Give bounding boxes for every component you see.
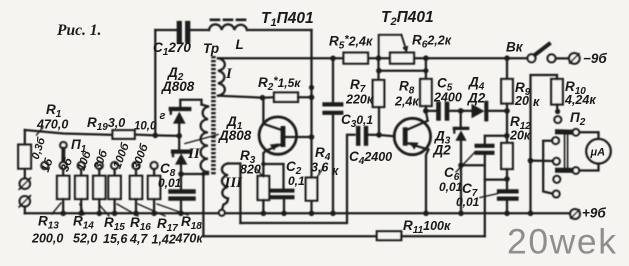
capacitor C6 branch parallel to R12 — [485, 136, 507, 144]
pointer line R13 — [52, 203, 61, 214]
wire R11 line bottom — [203, 235, 376, 237]
capacitor C2 branch — [261, 162, 265, 166]
svg-text:1,42: 1,42 — [152, 233, 176, 247]
svg-text:200,0: 200,0 — [31, 232, 63, 246]
zener D2 chain top corner — [180, 100, 201, 107]
wire C5 to D4 — [449, 110, 471, 112]
pointer line R17 — [138, 204, 165, 216]
resistor R14 with leads — [80, 169, 82, 176]
wire wiper2 to meter — [579, 163, 598, 170]
capacitor C7 — [499, 189, 517, 193]
svg-text:μА: μА — [590, 147, 606, 159]
winding III top lead — [228, 164, 240, 224]
zener diode D2 — [171, 107, 190, 111]
wire C6 line to R12 bottom node — [485, 178, 507, 180]
resistor R13 with leads — [62, 169, 64, 176]
wire contact 2 to contact 5 — [543, 141, 552, 194]
terminal plus 9V — [570, 209, 580, 219]
svg-text:Т1П401: Т1П401 — [261, 10, 314, 29]
svg-text:20к: 20к — [509, 129, 531, 143]
winding III — [222, 164, 228, 199]
winding II top lead — [202, 105, 209, 107]
transformer core — [211, 56, 216, 175]
wire D4 to R9 node — [488, 110, 507, 112]
P2 wiper link — [564, 135, 566, 169]
svg-text:10,0: 10,0 — [134, 121, 157, 133]
resistor R2 — [263, 96, 275, 99]
svg-text:2400: 2400 — [433, 91, 462, 105]
svg-text:470,0: 470,0 — [36, 117, 68, 131]
core of L dashes — [211, 18, 246, 21]
node R2 base junction — [260, 95, 266, 101]
resistor R18 with leads — [153, 169, 155, 176]
wire tank left leg — [154, 30, 156, 135]
resistor R6 trimmer — [390, 53, 414, 64]
svg-text:+9б: +9б — [582, 206, 606, 221]
svg-text:20wek: 20wek — [507, 222, 618, 262]
pointer line R18 — [157, 204, 188, 215]
switch P2 contact 3 — [553, 158, 560, 165]
switch P2 contact 5 — [553, 191, 560, 198]
wire winding I bottom to R2 node — [218, 96, 263, 98]
winding II — [201, 107, 208, 173]
svg-text:820: 820 — [240, 163, 261, 177]
wire T2 collector — [426, 111, 428, 121]
svg-text:220к: 220к — [345, 93, 374, 107]
wire C6 bottom down to R11 line — [484, 154, 486, 236]
wire tank right leg down to T1 collector — [310, 30, 312, 137]
pointer line C7 label — [480, 194, 498, 198]
terminal minus 9V — [569, 53, 580, 64]
node T1 collector tank — [309, 134, 315, 140]
node P2 branch on left line — [528, 158, 534, 164]
wire feedback line to C4 — [240, 135, 354, 223]
resistor R9 branch — [504, 55, 510, 61]
resistor R8 branch fed from bus and R5-R6 node — [376, 68, 382, 74]
wire R10 bottom to contact 1 — [556, 105, 559, 113]
meter microammeter — [586, 139, 610, 163]
winding III bottom lead — [222, 199, 228, 210]
zener diode D1 — [178, 136, 180, 150]
svg-text:Д808: Д808 — [161, 79, 195, 94]
svg-text:0,01: 0,01 — [439, 180, 463, 194]
svg-text:15,6: 15,6 — [103, 232, 128, 246]
wire R1 to input terminal — [24, 169, 26, 179]
wire L to tank right leg — [247, 29, 312, 31]
svg-text:III: III — [224, 175, 244, 191]
wire R19 to D2 chain — [135, 135, 180, 136]
transistor T2 — [394, 118, 430, 154]
resistor R19 — [113, 130, 135, 139]
capacitor C5 — [436, 104, 441, 118]
wire winding II bottom down to R11 line — [202, 174, 204, 236]
wire C1 to L — [189, 29, 209, 31]
svg-text:к: к — [332, 164, 339, 178]
switch Vk — [507, 57, 527, 59]
switch P2 contact 1 — [554, 116, 561, 123]
wire wiper1 to meter — [579, 132, 598, 139]
svg-text:4,24к: 4,24к — [564, 93, 596, 107]
node D1-D2 junction — [176, 133, 182, 139]
resistor R12 — [506, 111, 508, 143]
svg-text:I: I — [225, 66, 233, 82]
svg-text:к: к — [533, 95, 540, 109]
wire T1 emitter down — [263, 151, 265, 176]
svg-text:Рис. 1.: Рис. 1. — [57, 22, 101, 39]
svg-text:4,7: 4,7 — [129, 232, 148, 246]
wire tank top left — [155, 29, 176, 31]
wire T1 base up to R2 node — [262, 98, 264, 124]
P2 wiper 2 — [558, 168, 573, 173]
contact 1V — [60, 162, 67, 169]
capacitor C8 — [171, 189, 194, 193]
svg-text:Д808: Д808 — [218, 128, 252, 143]
capacitor C1 — [177, 24, 182, 41]
node C8 at rail — [178, 211, 184, 217]
contact 100V — [133, 162, 140, 169]
pointer line R1 label — [37, 128, 44, 136]
pointer line R16 — [117, 204, 138, 216]
transistor T1 — [259, 117, 296, 154]
svg-text:Вк: Вк — [506, 40, 524, 55]
pointer line R4 label — [317, 168, 324, 179]
svg-text:3,6: 3,6 — [311, 161, 329, 175]
capacitor C3 branch — [330, 56, 336, 62]
pointer line R15 — [100, 205, 110, 216]
winding II bottom lead — [181, 172, 208, 174]
contact 30V — [111, 162, 118, 169]
contact 0.3V — [41, 162, 48, 169]
svg-text:20: 20 — [514, 94, 529, 108]
contact 300V — [151, 162, 158, 169]
switch P1 wiper — [60, 142, 66, 148]
svg-text:470к: 470к — [175, 232, 204, 246]
pointer line C6 label — [456, 152, 475, 172]
svg-text:Д2: Д2 — [467, 91, 486, 106]
contact 10V — [96, 162, 103, 169]
svg-text:0,1: 0,1 — [288, 174, 305, 188]
resistor R1 — [18, 145, 31, 169]
wire T1 collector — [296, 136, 311, 138]
switch P2 contact 4 — [553, 176, 560, 183]
terminal input minus — [20, 196, 30, 206]
pointer line D1 label — [185, 135, 218, 144]
svg-text:0,01: 0,01 — [158, 176, 182, 190]
P2 wiper 1 — [558, 129, 573, 134]
resistor R3 — [258, 176, 270, 200]
contact 3V — [78, 162, 85, 169]
wire supply bus — [218, 57, 508, 59]
svg-text:L: L — [236, 37, 244, 52]
diode D4 — [472, 104, 485, 118]
trimmer R6 wiper link — [379, 35, 402, 58]
resistor R17 with leads — [135, 169, 137, 176]
winding I — [218, 58, 225, 95]
wire T2 emitter — [426, 150, 428, 214]
zener diode D3 branch — [458, 108, 464, 114]
resistor R4 — [310, 137, 312, 178]
resistor R11 — [377, 231, 402, 240]
inductor L — [209, 24, 247, 30]
capacitor C4 — [356, 128, 360, 144]
svg-text:Тр: Тр — [203, 41, 219, 56]
wire input top from R1 to divider switch — [25, 130, 112, 135]
terminal winding III at rail — [219, 210, 225, 216]
wire C4 to T2 base — [367, 135, 394, 137]
resistor R5 — [344, 53, 369, 64]
node R2 right at tank leg — [309, 95, 315, 101]
wire collector node to C5 — [426, 110, 437, 112]
svg-text:−9б: −9б — [583, 51, 607, 66]
switch P2 contact 2 — [552, 137, 559, 144]
resistor R16 with leads — [113, 169, 115, 176]
terminal input plus — [20, 179, 30, 189]
svg-text:2,4к: 2,4к — [394, 95, 419, 109]
node D1 anode / winding II bottom — [178, 171, 184, 177]
svg-text:0,01: 0,01 — [456, 195, 480, 209]
svg-text:II: II — [187, 146, 201, 162]
wire R1 top lead — [24, 130, 26, 145]
svg-text:г: г — [160, 110, 166, 122]
wire bottom rail — [25, 212, 571, 214]
pointer line R3 label — [256, 168, 264, 177]
wire C6 node to D3 line — [461, 164, 485, 166]
resistor R7 branch — [376, 55, 382, 61]
svg-text:Д2: Д2 — [433, 143, 452, 158]
pointer line R14 — [80, 204, 84, 215]
svg-text:Т2П401: Т2П401 — [381, 9, 434, 28]
node R19-C1 junction — [153, 133, 159, 139]
wire terminal to ground rail — [24, 207, 26, 214]
svg-text:52,0: 52,0 — [73, 232, 97, 246]
resistor R10 with top link — [551, 79, 563, 105]
resistor R15 with leads — [98, 169, 100, 176]
